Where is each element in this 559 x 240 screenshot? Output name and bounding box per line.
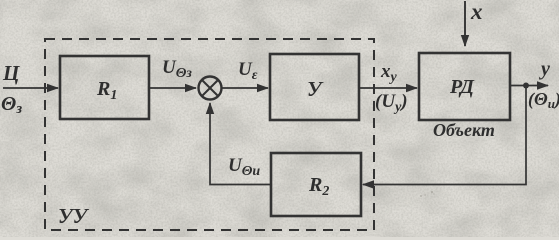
faint scan speckle bbox=[420, 191, 434, 197]
block РД bbox=[419, 53, 510, 120]
wire: РД output bbox=[510, 85, 548, 87]
wire: R1 to summer bbox=[149, 87, 196, 89]
wire: input line bbox=[3, 87, 58, 89]
wire: feedback down from junction bbox=[363, 86, 526, 185]
svg-text:x: x bbox=[470, 0, 483, 24]
svg-text:Объект: Объект bbox=[433, 120, 495, 140]
svg-text:Ц: Ц bbox=[2, 61, 20, 85]
svg-text:(Θи): (Θи) bbox=[528, 89, 559, 111]
svg-text:у: у bbox=[539, 58, 550, 80]
wire: x disturbance input bbox=[464, 1, 466, 46]
block R2 bbox=[271, 153, 361, 216]
svg-text:(Uу): (Uу) bbox=[375, 91, 408, 115]
wire: summer to У bbox=[222, 87, 268, 89]
block R1 bbox=[60, 56, 149, 119]
svg-text:У: У bbox=[307, 77, 324, 101]
svg-text:УУ: УУ bbox=[58, 204, 90, 228]
junction dot bbox=[523, 83, 529, 89]
svg-text:РД: РД bbox=[449, 76, 475, 98]
block У (amplifier) bbox=[270, 54, 359, 120]
wire: R2 output to summer bbox=[210, 103, 271, 185]
wire: У to РД bbox=[359, 87, 417, 89]
summing junction bbox=[199, 77, 222, 100]
dashed box УУ bbox=[45, 39, 374, 230]
